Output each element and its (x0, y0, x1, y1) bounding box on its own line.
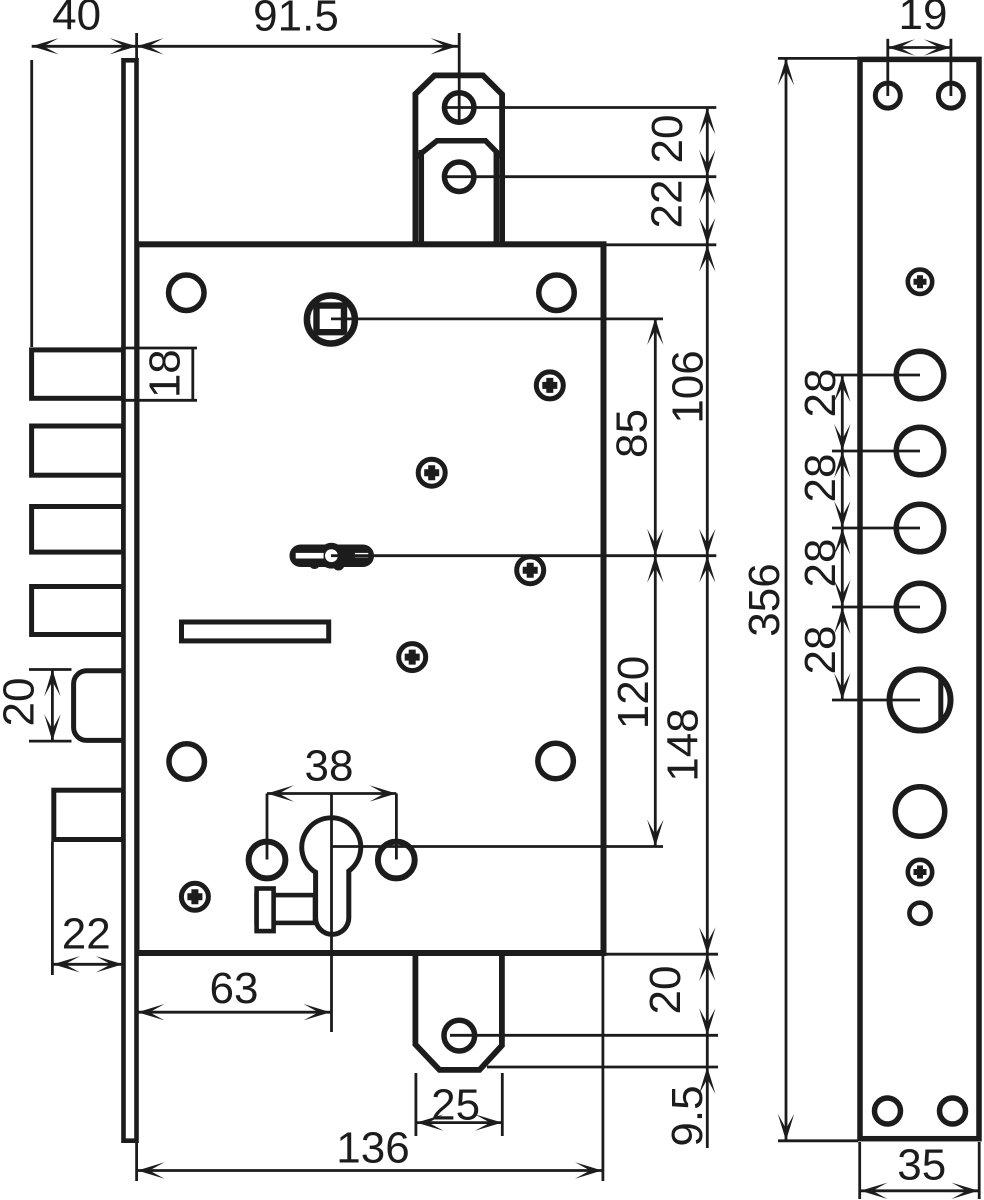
dimension line latch 20 (51, 670, 54, 742)
svg-text:28: 28 (796, 539, 845, 588)
arrows dim 19 (888, 39, 915, 55)
fixing hole bottom-left (169, 744, 205, 780)
plate screw hole bottom-right (940, 1098, 966, 1124)
tick: plate top (356) (778, 57, 858, 60)
bracket line 18 (191, 348, 194, 400)
reference: cylinder center horizontal (332, 845, 664, 848)
dimension line 38 (267, 792, 396, 795)
arrows dim latch 20 (44, 670, 60, 697)
svg-text:148: 148 (659, 708, 708, 781)
svg-text:20: 20 (643, 115, 692, 164)
fixing hole bottom-right (538, 743, 574, 779)
top tab hole 1 (444, 93, 474, 123)
extension: faceplate bottom (135, 1142, 138, 1181)
dimension line 356 (785, 58, 788, 1140)
tick: plate latch hole (832, 699, 920, 702)
fixing hole top-left (169, 275, 205, 311)
svg-text:40: 40 (52, 0, 101, 40)
strike plate (front view) (860, 59, 979, 1138)
arrows dim 148 (699, 556, 715, 583)
reference: spindle center (331, 317, 663, 320)
handle spindle hub (307, 296, 355, 344)
svg-text:20: 20 (641, 966, 690, 1015)
dimension line 35 (861, 1189, 979, 1192)
plate screw bottom (908, 860, 932, 884)
top tab inner plate roof (416, 141, 503, 159)
dimension line 22 (53, 963, 123, 966)
arrows dim 22 right (699, 177, 715, 204)
reference: bottom tab hole (450, 1034, 718, 1037)
svg-text:22: 22 (62, 909, 111, 958)
reference: tab hole 1 horizontal (446, 106, 716, 109)
svg-text:28: 28 (796, 369, 845, 418)
svg-text:91.5: 91.5 (253, 0, 339, 41)
svg-text:9.5: 9.5 (663, 1085, 712, 1146)
top mounting tab (outer plate) (415, 75, 502, 246)
extension: right cylinder hole (395, 794, 398, 860)
reference: lever center (331, 554, 716, 557)
svg-text:38: 38 (305, 742, 354, 791)
auxiliary lower bolt (54, 790, 124, 839)
extension: lower bolt tip (51, 842, 54, 975)
case screw 2 (418, 459, 445, 486)
svg-text:63: 63 (210, 964, 259, 1013)
arrows dim 136 (138, 1162, 165, 1178)
dimension line 136 (138, 1169, 603, 1172)
extension: body bottom edge (605, 953, 718, 956)
arrows dim 25 (417, 1114, 444, 1130)
arrows dim 85 (647, 318, 663, 345)
extension: plate top hole left (19) (886, 39, 889, 96)
svg-text:19: 19 (899, 0, 948, 39)
plate small hole (909, 903, 930, 924)
case screw 3 (517, 557, 544, 584)
svg-text:136: 136 (336, 1123, 409, 1172)
plate screw hole top-left (875, 83, 900, 108)
arrows dim 38 (267, 785, 294, 801)
plate screw top (908, 270, 932, 294)
dimension line 28 column (841, 375, 844, 700)
dimension line 19 (888, 46, 951, 49)
dimension line 25 (417, 1121, 503, 1124)
top tab hole 2 (444, 162, 474, 192)
extension: body top edge (605, 243, 716, 246)
svg-text:28: 28 (796, 626, 845, 675)
plate bolt hole 3 (896, 504, 944, 552)
plate bolt hole 4 (896, 583, 944, 631)
arrows dim 40 (32, 38, 59, 54)
top tab inner plate right edge (494, 153, 500, 245)
tick: plate bottom (356) (778, 1139, 858, 1142)
svg-text:28: 28 (796, 454, 845, 503)
arrows dim 28 x4 (834, 375, 850, 402)
cylinder fixing hole left (249, 842, 286, 879)
deadbolt 1 (32, 350, 124, 398)
extension: faceplate face top (135, 33, 138, 58)
svg-text:25: 25 (431, 1081, 480, 1130)
latch hole flat chord (938, 677, 943, 723)
svg-text:106: 106 (663, 350, 712, 423)
arrows dim 20 top (699, 108, 715, 135)
arrows dim 20 bottom (699, 954, 715, 981)
cylinder cam foot (257, 889, 274, 932)
cylinder fixing hole right (378, 842, 415, 879)
slot opening (182, 622, 329, 641)
tick: plate hole 2 (832, 450, 920, 453)
lock body case (137, 244, 604, 953)
extension: body right edge (602, 956, 605, 1181)
svg-text:356: 356 (740, 563, 789, 636)
extension: plate left (35) (858, 1142, 861, 1199)
extension: bottom tab left (25) (414, 1073, 417, 1136)
dimension line 40 / 91.5 (32, 45, 460, 48)
svg-text:18: 18 (141, 349, 190, 398)
case screw 4 (399, 644, 426, 671)
dimension line column right (20/22/106/148/20/9.5) (706, 108, 709, 1149)
extension: bottom tab bottom edge (487, 1066, 718, 1069)
lever rocker (290, 543, 375, 571)
extension: bolt tip (30, 60, 33, 347)
spring latch bolt (74, 671, 131, 741)
plate bolt hole 2 (896, 427, 944, 475)
extension: latch bottom (20) (29, 740, 72, 743)
arrows dim 120 (647, 556, 663, 583)
bottom tab hole (444, 1020, 475, 1051)
arrows dim 106 (699, 245, 715, 272)
extension: bolt top (18) (121, 347, 197, 350)
deadbolt 2 (32, 426, 124, 475)
arrows dim 35 (861, 1183, 888, 1199)
cylinder cam arm (257, 895, 315, 923)
arrows dim 63 (138, 1004, 165, 1020)
centerline: tab hole 1 vertical (458, 33, 461, 121)
deadbolt 4 (32, 587, 124, 635)
centerline: cylinder vertical (330, 794, 333, 1033)
svg-text:35: 35 (897, 1140, 946, 1189)
plate bolt hole 1 (896, 351, 944, 399)
dimension line 63 (138, 1011, 331, 1014)
extension: plate right (35) (978, 1142, 981, 1199)
svg-text:85: 85 (607, 409, 656, 458)
tick: plate hole 3 (832, 527, 920, 530)
extension: bottom tab right (25) (501, 1073, 504, 1136)
svg-text:22: 22 (642, 180, 691, 229)
forend faceplate (edge view) (124, 60, 137, 1140)
arrow dim 9.5 (699, 1067, 715, 1094)
tick: plate hole 4 (832, 606, 920, 609)
spindle square hole (317, 306, 345, 333)
case screw 5 (181, 883, 208, 910)
fixing hole top-right (539, 275, 575, 311)
top tab inner plate left edge (419, 150, 425, 245)
extension: bolt bottom (18) (121, 399, 197, 402)
svg-text:120: 120 (609, 656, 658, 729)
bottom mounting tab (415, 951, 502, 1070)
deadbolt 3 (32, 507, 124, 553)
extension: latch top (20) (29, 668, 72, 671)
euro cylinder keyhole profile (302, 818, 361, 935)
svg-text:20: 20 (0, 678, 44, 727)
case screw 1 (536, 372, 563, 399)
extension: left cylinder hole (266, 794, 269, 860)
dimension line 85/120 (654, 318, 657, 847)
arrows dim 356 (778, 58, 794, 85)
plate screw hole top-right (938, 83, 963, 108)
plate lower bolt hole (895, 787, 945, 837)
arrows dim 22 left (53, 956, 80, 972)
tick: plate hole 1 (832, 374, 920, 377)
extension: plate top hole right (19) (950, 39, 953, 96)
plate screw hole bottom-left (875, 1098, 901, 1124)
plate latch hole with flat (890, 670, 951, 731)
arrows dim 91.5 (137, 38, 164, 54)
reference: tab hole 2 horizontal (446, 175, 716, 178)
